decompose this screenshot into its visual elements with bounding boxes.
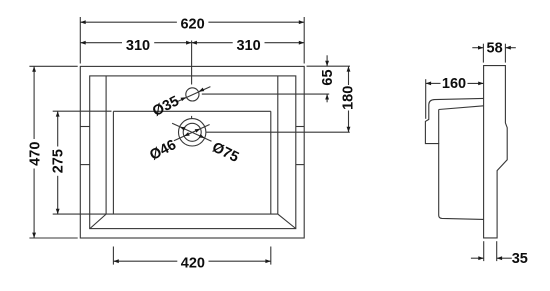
dim 35 extension right [496,241,498,261]
centerline below tap hole [191,116,193,119]
dim 58 extension left [482,44,484,63]
svg-text:Ø35: Ø35 [150,93,182,120]
dim 275 extension top [53,110,112,112]
dim 310 right line [192,42,233,44]
svg-text:58: 58 [487,41,503,57]
dim 470 line [33,66,35,139]
arrows dim 470 [32,66,36,71]
dim 35 left tail [471,257,484,259]
arrows dim 65 [325,61,329,66]
arrows tap hole leader [180,95,186,101]
arrows waste inner leader [183,132,189,138]
waste extension line [206,131,350,133]
arrows waste outer leader [179,125,185,131]
basin rim inner rectangle [90,76,296,229]
tap hole circle [186,88,199,101]
dim 420 extension right [270,247,272,265]
dim 58 left tail [472,47,483,49]
svg-text:620: 620 [180,16,204,32]
arrows dim 310 left [80,41,85,45]
svg-text:420: 420 [181,255,205,271]
svg-text:160: 160 [442,76,466,92]
arrows dim 620 [80,20,85,24]
bowl corner chamfer left [90,214,106,228]
svg-text:310: 310 [236,38,260,54]
dim 470 extension top [29,65,77,67]
waste inner circle [183,123,201,141]
arrows dim 275 [56,111,60,116]
dim 275 line [57,111,59,146]
svg-text:275: 275 [51,149,67,173]
dim 65 line upper tail [326,55,328,66]
side view rim inner ledge line [439,106,484,110]
dim 620 line [80,21,177,23]
svg-text:470: 470 [28,142,44,166]
right band tick upper [296,126,304,128]
leader line waste inner [174,125,210,141]
left band tick upper [80,126,89,128]
bowl bottom top edge [113,110,270,112]
dim 58 right tail [505,47,515,49]
dim 420 extension left [112,247,114,265]
arrows dim 58 [478,46,483,50]
dim 310 left line [80,42,122,44]
arrows dim 180 [347,66,351,71]
basin outer rectangle (front view) [80,66,304,238]
arrows dim 35 [478,256,483,260]
leader line waste outer [172,123,211,141]
dim 35 extension left [483,241,485,261]
dim 58 extension right [504,44,506,63]
bowl bottom left edge [112,111,114,214]
centerline above tap hole [191,41,193,85]
top right extension line [307,65,351,67]
bowl bottom lower edge [106,213,278,215]
left band tick lower [80,164,89,166]
dim 65 line lower tail [326,94,328,102]
dim 180 line [348,66,350,85]
svg-text:Ø75: Ø75 [209,140,241,166]
waste outer circle [179,119,206,146]
bowl opening right edge [277,76,279,214]
dim 35 right tail [497,257,512,259]
side view back panel outline [484,66,508,238]
bowl bottom right edge [270,111,272,214]
dim 620 extension left [79,17,81,64]
svg-text:180: 180 [340,86,356,110]
tap hole extension line [202,93,329,95]
right band tick lower [296,164,304,166]
svg-text:310: 310 [126,38,150,54]
arrows dim 310 right [192,41,197,45]
dim 420 line [113,260,177,262]
svg-text:35: 35 [512,251,528,267]
bowl corner chamfer right [278,214,296,228]
dim 275 extension bottom [53,213,106,215]
leader line tap hole [177,87,210,102]
dim 620 extension right [303,17,305,64]
dim 470 extension bottom [29,237,77,239]
arrows dim 420 [113,259,118,263]
dim 160 extension [425,79,427,119]
side view apron inner vertical [438,110,440,144]
dim 160 line [426,82,441,84]
arrows dim 160 [426,82,431,86]
bowl opening left edge [105,76,107,214]
svg-text:65: 65 [320,69,336,85]
side view basin silhouette [425,98,483,219]
